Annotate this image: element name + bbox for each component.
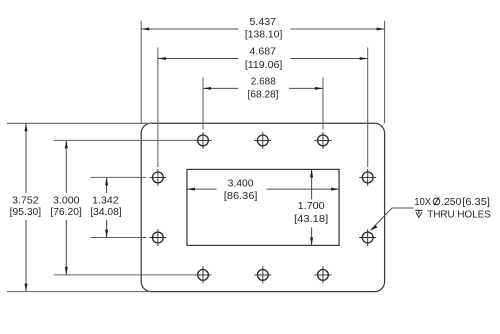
hole H7 bbox=[149, 169, 166, 186]
dimension 3.752 [95.30] bbox=[10, 123, 42, 291]
svg-text:.250: .250 bbox=[441, 197, 462, 208]
svg-text:5.437: 5.437 bbox=[250, 17, 277, 28]
svg-text:THRU HOLES: THRU HOLES bbox=[427, 210, 491, 221]
extension lines dim 4.687 bbox=[158, 48, 368, 168]
svg-text:[86.36]: [86.36] bbox=[224, 191, 258, 202]
depth symbol bbox=[415, 210, 422, 217]
svg-text:[138.10]: [138.10] bbox=[245, 30, 283, 41]
dimension 5.437 [138.10] bbox=[141, 17, 384, 41]
svg-text:3.400: 3.400 bbox=[228, 178, 254, 189]
hole H4 bbox=[195, 266, 212, 283]
dimension 1.700 [43.18] bbox=[294, 169, 328, 245]
dimension 4.687 [119.06] bbox=[158, 47, 368, 71]
leader to hole H10 bbox=[370, 208, 414, 231]
svg-text:[76.20]: [76.20] bbox=[50, 207, 82, 218]
hole H8 bbox=[149, 229, 166, 246]
svg-text:4.687: 4.687 bbox=[250, 47, 277, 58]
extension lines dim 2.688 bbox=[203, 78, 323, 130]
svg-text:[34.08]: [34.08] bbox=[90, 207, 122, 218]
extension lines dim 3.000 bbox=[54, 140, 197, 275]
dimension 2.688 [68.28] bbox=[203, 77, 323, 101]
hole H5 bbox=[254, 266, 271, 283]
svg-text:2.688: 2.688 bbox=[251, 77, 276, 88]
hole H1 bbox=[195, 132, 212, 149]
note 10X dia .250 [6.35] bbox=[414, 197, 490, 208]
aperture opening bbox=[187, 169, 339, 245]
extension lines dim 3.752 bbox=[7, 123, 152, 291]
dimension 3.000 [76.20] bbox=[50, 140, 82, 275]
hole H10 bbox=[359, 229, 376, 246]
hole H6 bbox=[314, 266, 331, 283]
note THRU HOLES with depth symbol bbox=[415, 210, 491, 221]
extension lines dim 5.437 bbox=[141, 21, 384, 124]
svg-text:[68.28]: [68.28] bbox=[248, 89, 279, 100]
svg-text:1.342: 1.342 bbox=[92, 196, 119, 207]
svg-text:10X: 10X bbox=[414, 197, 431, 208]
hole H3 bbox=[314, 132, 331, 149]
hole H9 bbox=[359, 169, 376, 186]
svg-text:[6.35]: [6.35] bbox=[462, 197, 490, 208]
svg-text:3.000: 3.000 bbox=[53, 196, 80, 207]
svg-text:[119.06]: [119.06] bbox=[245, 60, 283, 71]
svg-text:1.700: 1.700 bbox=[298, 201, 325, 212]
dimension 1.342 [34.08] bbox=[90, 177, 122, 237]
dimension 3.400 [86.36] bbox=[187, 178, 339, 202]
diameter symbol bbox=[433, 197, 440, 205]
hole H2 bbox=[254, 132, 271, 149]
extension lines dim 1.342 bbox=[90, 177, 146, 237]
svg-text:[95.30]: [95.30] bbox=[10, 207, 42, 218]
svg-text:3.752: 3.752 bbox=[12, 196, 39, 207]
plate outline bbox=[141, 123, 384, 291]
svg-text:[43.18]: [43.18] bbox=[294, 214, 328, 225]
